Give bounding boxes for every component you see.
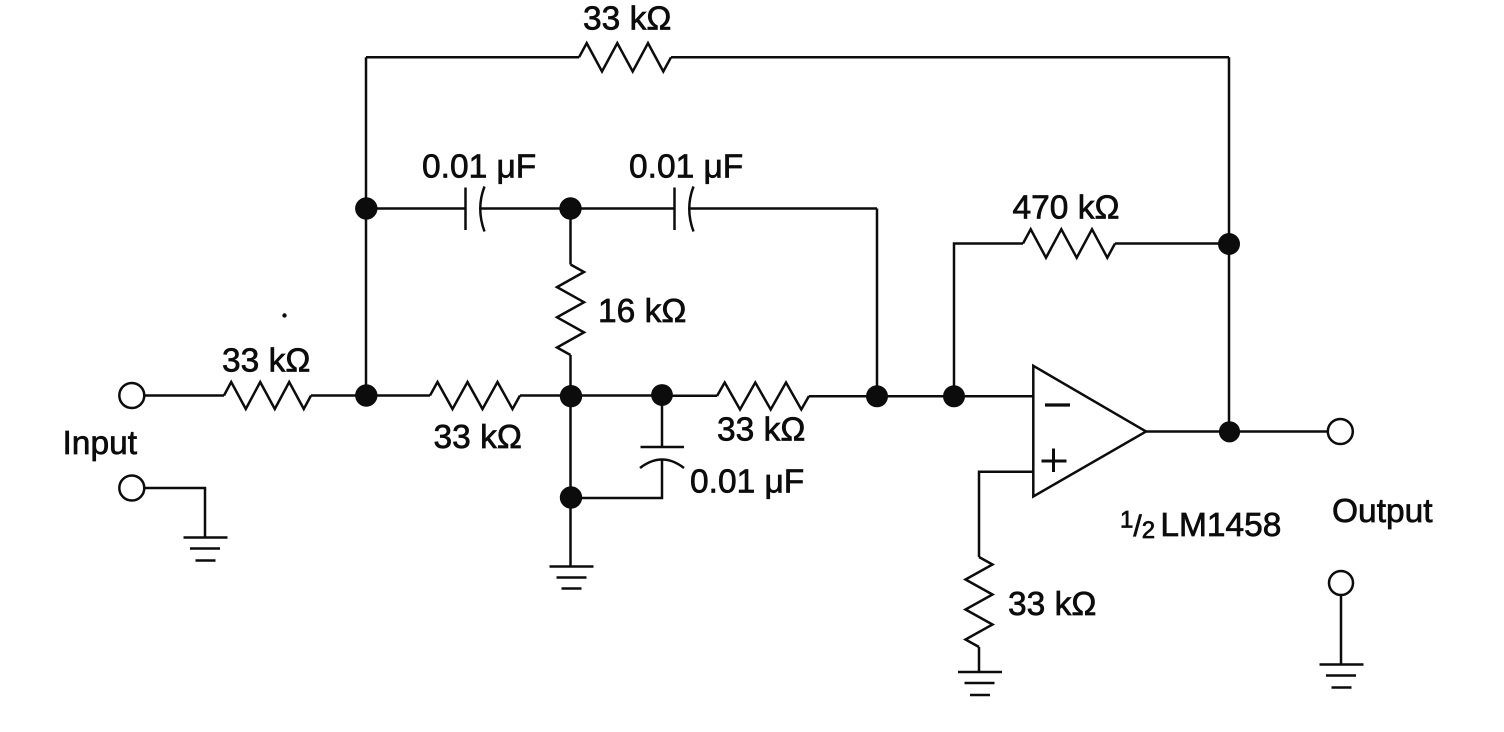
node B (junction dot, between caps) (559, 197, 581, 219)
resistor R6 33 k (non-inverting to ground) (966, 557, 993, 647)
resistor R2 33 k (main line) (430, 382, 520, 409)
capacitor C1 0.01 uF left plate (464, 188, 467, 231)
resistor R3 33 k (main line right) (717, 383, 809, 410)
wire R6 to ground (978, 647, 981, 672)
wire top feedback left segment (366, 56, 579, 59)
capacitor C2 0.01 uF curved plate (689, 187, 693, 232)
node E (junction dot, 470k branch) (943, 385, 965, 407)
wire R3 to op-amp inverting input (809, 395, 1033, 398)
svg-text:Input: Input (63, 425, 138, 462)
resistor R1 33 k (input) (224, 382, 311, 409)
wire node C to node D (571, 394, 663, 397)
ground G2 (twin-T) (550, 567, 594, 589)
wire right vertical (output column top) (1228, 57, 1231, 243)
capacitor C3 0.01 uF top plate (641, 446, 685, 449)
wire R1 to node A (311, 394, 366, 397)
wire right vertical (node to output) (1228, 244, 1231, 432)
terminal output circle (1328, 419, 1353, 444)
wire node D to R3 (662, 395, 717, 398)
wire capacitor row: node A to C1 (366, 207, 466, 210)
ground G4 (output) (1320, 665, 1364, 688)
svg-text:33 kΩ: 33 kΩ (1008, 586, 1096, 623)
wire node B to C2 (571, 207, 675, 210)
wire input ground terminal (144, 488, 205, 537)
op-amp plus symbol (1042, 449, 1067, 473)
svg-text:Output: Output (1332, 493, 1433, 530)
resistor R-top 33 k (top feedback) (579, 43, 671, 71)
ground G1 (input) (184, 538, 228, 561)
wire node B to 16k resistor (569, 209, 572, 265)
ground G3 (non-inverting input) (958, 672, 1002, 695)
svg-text:0.01 μF: 0.01 μF (422, 149, 536, 186)
svg-text:1/2 LM1458: 1/2 LM1458 (1120, 507, 1281, 545)
speck artifact (282, 313, 286, 317)
capacitor C1 0.01 uF curved plate (480, 187, 484, 232)
node G (junction dot, lower twin-T) (560, 486, 582, 508)
resistor 16 k (vertical) (557, 265, 584, 356)
wire op-amp output (1146, 430, 1328, 433)
resistor R5 470 k (feedback) (1023, 229, 1115, 257)
capacitor C2 0.01 uF left plate (673, 188, 676, 231)
wire R2 to node C (520, 394, 571, 397)
wire C2 to right drop (690, 207, 878, 210)
svg-text:470 kΩ: 470 kΩ (1013, 190, 1120, 227)
wire output ground terminal (1340, 595, 1343, 664)
svg-text:33 kΩ: 33 kΩ (583, 1, 671, 38)
wire input to R1 (144, 394, 224, 397)
node C (junction dot, main line centre) (560, 385, 582, 407)
node H (junction dot, 470k right) (1218, 233, 1240, 255)
wire node E up to 470k (954, 244, 1023, 397)
svg-text:33 kΩ: 33 kΩ (222, 343, 310, 380)
wire node D to capacitor C3 (661, 396, 664, 448)
svg-text:16 kΩ: 16 kΩ (598, 293, 686, 330)
wire left vertical (node A column) (365, 57, 368, 396)
wire 16k to main line (569, 355, 572, 396)
capacitor C3 0.01 uF curved plate (640, 460, 684, 469)
svg-text:33 kΩ: 33 kΩ (434, 419, 522, 456)
op-amp minus symbol (1045, 403, 1070, 406)
wire vertical drop to main line (876, 209, 879, 397)
wire 470k to right vertical node (1115, 242, 1229, 245)
svg-text:0.01 μF: 0.01 μF (690, 464, 804, 501)
wire C3 to lower node (571, 461, 662, 499)
node J (junction dot, output) (1219, 421, 1240, 442)
node F (junction dot, main line right) (866, 385, 888, 407)
wire node C down through lower node to ground (569, 396, 572, 567)
wire top feedback right segment (671, 56, 1229, 59)
wire C1 to node B (481, 207, 571, 210)
node A (junction dot, cap row left) (355, 197, 377, 219)
wire node A to R2 (366, 394, 430, 397)
svg-text:0.01 μF: 0.01 μF (629, 149, 743, 186)
node D (junction dot, cap C3 top) (651, 384, 673, 406)
terminal output ground circle (1329, 571, 1353, 595)
wire non-inverting input (979, 472, 1033, 557)
node A2 (junction dot, main line left) (355, 384, 377, 406)
terminal input ground circle (119, 476, 144, 501)
svg-text:33 kΩ: 33 kΩ (717, 412, 805, 449)
op-amp U1 triangle (1033, 366, 1146, 497)
terminal input circle (119, 383, 144, 408)
